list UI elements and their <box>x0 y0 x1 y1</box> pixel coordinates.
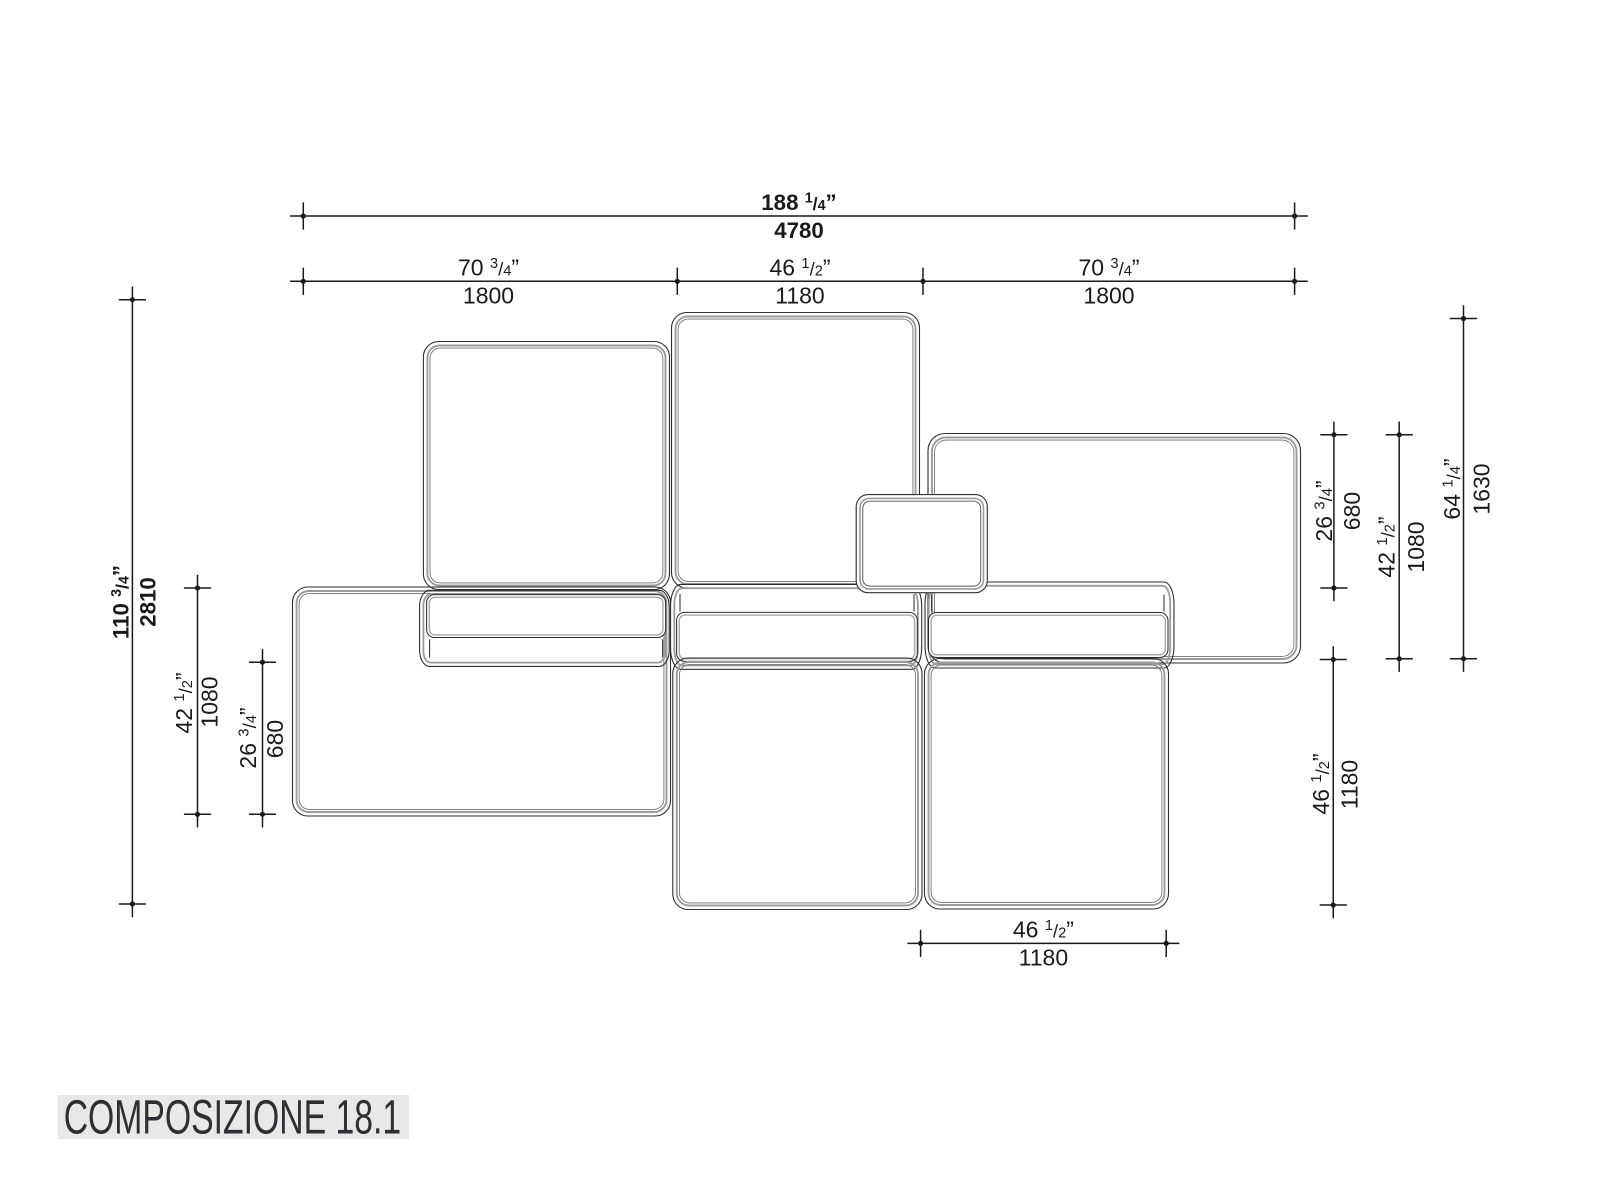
dimension right 26 3/4in 680 <box>1311 422 1365 602</box>
module J bottom right square 1180x1180 <box>925 659 1169 910</box>
dimension right 46 1/2in 1180 <box>1308 646 1363 918</box>
module E bottom left box 1800x1080 <box>293 587 671 816</box>
module F middle shelf left <box>420 590 670 666</box>
svg-text:1800: 1800 <box>1083 283 1134 309</box>
dimension overall width 188 1/4in 4780 <box>290 190 1308 243</box>
svg-text:COMPOSIZIONE 18.1: COMPOSIZIONE 18.1 <box>64 1091 402 1145</box>
svg-text:680: 680 <box>262 720 288 758</box>
module I bottom middle square 1180x1180 <box>673 658 922 910</box>
dimension bottom 46 1/2in 1180 <box>907 917 1179 971</box>
svg-text:4780: 4780 <box>774 218 824 243</box>
module A top left square <box>423 342 669 590</box>
module H middle shelf right <box>925 582 1174 668</box>
svg-text:1630: 1630 <box>1468 463 1494 514</box>
svg-text:1800: 1800 <box>463 283 514 309</box>
dimension left 42 1/2in 1080 <box>171 575 222 828</box>
module C right wide box 1800x1080 <box>928 434 1301 664</box>
dimension left 26 3/4in 680 <box>235 649 288 828</box>
dimension right 42 1/2in 1080 <box>1374 422 1429 672</box>
svg-text:110 3/4”: 110 3/4” <box>109 565 134 639</box>
module D small center box <box>856 495 987 593</box>
module G middle shelf center <box>671 584 922 669</box>
svg-text:1180: 1180 <box>775 283 824 309</box>
svg-text:1080: 1080 <box>1403 521 1429 572</box>
svg-text:680: 680 <box>1339 492 1365 530</box>
dimension right 64 1/4in 1630 <box>1439 305 1494 672</box>
svg-text:1180: 1180 <box>1019 945 1068 971</box>
svg-text:1080: 1080 <box>196 676 222 727</box>
module B top middle box <box>672 313 920 589</box>
dimension overall height 110 3/4in 2810 <box>109 287 161 918</box>
svg-text:188 1/4”: 188 1/4” <box>761 190 836 215</box>
svg-text:1180: 1180 <box>1337 760 1363 809</box>
title block COMPOSIZIONE 18.1 <box>58 1091 410 1145</box>
svg-text:2810: 2810 <box>136 577 161 627</box>
dimension row 1800 / 1180 / 1800 <box>290 255 1308 309</box>
